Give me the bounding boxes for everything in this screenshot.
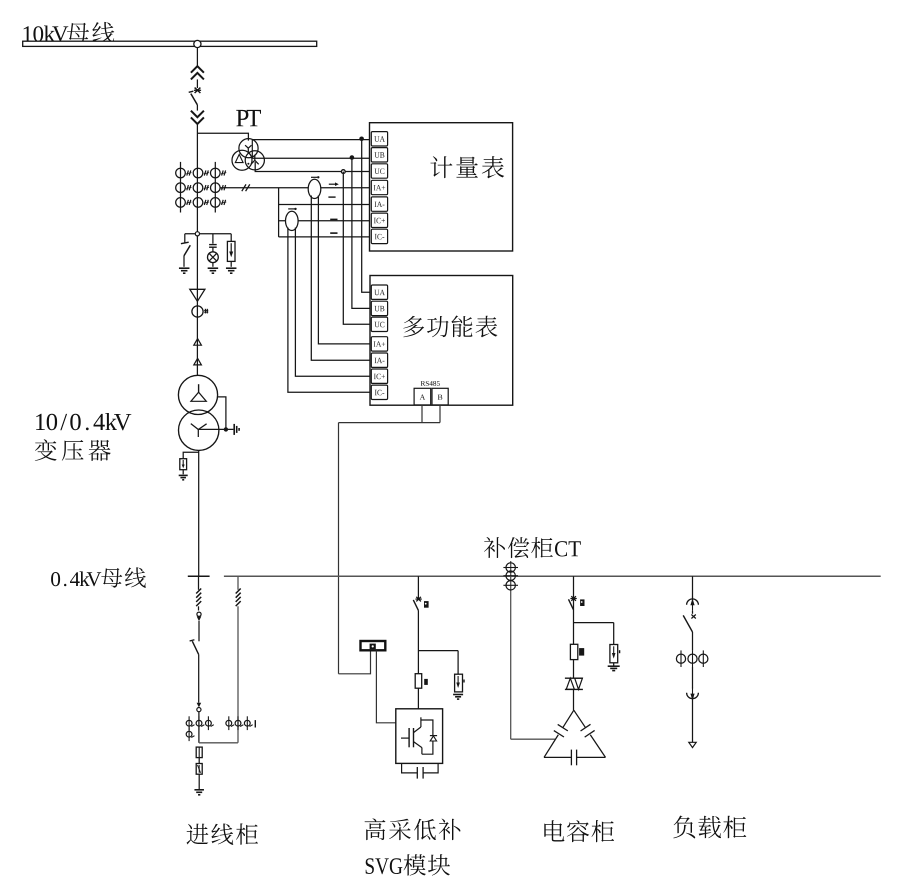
PT winding A xyxy=(239,139,258,158)
wire IA+ to meter1 xyxy=(220,187,371,189)
0.4kV busbar xyxy=(224,575,881,577)
marker dash IC- xyxy=(330,232,337,234)
0.4kV bus crossbar xyxy=(188,575,210,577)
wire UC drop to meter2 xyxy=(343,172,371,325)
wire xyxy=(198,621,200,641)
10kV busbar xyxy=(23,41,317,46)
ground arrester capacitor xyxy=(613,663,615,666)
wire xyxy=(692,699,694,743)
breaker capacitor branch xyxy=(571,596,576,601)
wire xyxy=(692,667,694,689)
arrester capacitor branch xyxy=(613,623,615,645)
label SVG cabinet line1 xyxy=(365,818,461,840)
fuse capacitor xyxy=(570,644,577,659)
PT delta mark xyxy=(235,154,243,162)
wire bus to isolator xyxy=(196,48,198,67)
wire RS485 B xyxy=(439,405,441,423)
ground arrester SVG xyxy=(453,694,463,696)
wire xyxy=(198,758,200,764)
ground neutral rotated xyxy=(233,424,235,435)
wire UB drop to meter2 xyxy=(352,158,371,309)
wire neutral xyxy=(198,428,233,430)
wire CT IC lead b xyxy=(288,228,371,393)
PT winding B xyxy=(232,150,252,170)
comm module box xyxy=(361,641,386,650)
node neutral xyxy=(224,427,228,431)
wire xyxy=(417,610,419,673)
wire xyxy=(182,470,184,475)
fuse SVG xyxy=(415,674,422,689)
wire xyxy=(198,712,200,743)
wire IA- to meter1 xyxy=(279,204,372,206)
wire RS485 horizontal xyxy=(339,422,441,424)
transformer wye mark xyxy=(191,424,199,430)
PT inner lead xyxy=(251,140,253,159)
ground earth switch xyxy=(179,267,190,269)
fuse feeder1 xyxy=(196,747,202,758)
wire UB xyxy=(252,157,371,159)
load CT circles xyxy=(680,650,682,667)
label 0.4kV busbar xyxy=(51,571,101,586)
arrester SVG branch xyxy=(457,651,459,675)
wire riser to capacitor delta xyxy=(511,738,556,740)
breaker X mark xyxy=(195,88,201,93)
branch to arrester cap xyxy=(574,622,614,624)
flow triangle xyxy=(190,289,205,301)
label transformer ratio xyxy=(36,413,131,430)
meter device circle xyxy=(192,306,203,317)
breaker SVG branch xyxy=(416,597,421,602)
ground arrester xyxy=(226,267,237,269)
contact symbol xyxy=(197,612,201,616)
wire xyxy=(573,689,575,710)
label multifunction meter xyxy=(403,316,497,338)
load feeder drawout contact bottom xyxy=(687,693,699,699)
RS485 terminals A B xyxy=(414,388,431,405)
wire xyxy=(573,660,575,679)
label transformer name xyxy=(35,439,111,461)
node UB junction xyxy=(350,155,355,160)
wire IC+ to meter1 xyxy=(279,220,372,222)
load arrow xyxy=(689,742,696,747)
label incoming cabinet xyxy=(187,823,259,844)
PT winding C xyxy=(245,151,264,170)
label 10kV busbar xyxy=(24,26,69,42)
label metering meter xyxy=(430,156,504,178)
marker dash IC+ xyxy=(330,218,337,220)
wire UA xyxy=(252,139,371,141)
CT grid 3x3 current transformers xyxy=(180,162,182,213)
wire HV tap xyxy=(217,397,226,430)
earth switch xyxy=(184,234,186,243)
wire CT IA lead b xyxy=(311,196,371,361)
arrester branch xyxy=(230,234,232,242)
relay triangle 2 xyxy=(194,358,202,365)
wire xyxy=(417,688,419,709)
wire to comm module xyxy=(339,651,371,674)
label compensation CT xyxy=(484,537,581,558)
transformer LV winding xyxy=(179,410,219,450)
relay triangle 1 xyxy=(194,339,202,346)
thyristor pair xyxy=(565,677,583,679)
capacitor delta bank xyxy=(563,710,574,727)
transformer HV winding xyxy=(178,375,217,414)
marker dash IA- xyxy=(328,196,335,198)
surge arrester xyxy=(227,241,235,261)
PT dot xyxy=(247,163,249,165)
meter1 terminal strip UA UB UC IA+ IA- IC+ IC- xyxy=(371,132,387,146)
wire xyxy=(196,232,198,375)
ground lamp xyxy=(208,267,219,269)
wire UC xyxy=(255,162,371,172)
disconnect blade xyxy=(189,91,194,92)
wire CT IC lead a xyxy=(295,228,371,377)
lamp xyxy=(208,252,219,263)
feeder1 CT cluster xyxy=(188,716,190,730)
isolator upper chevrons xyxy=(191,66,204,73)
contact symbol lower xyxy=(197,703,202,708)
wire RS485 A xyxy=(421,405,423,423)
ground feeder1 xyxy=(194,789,204,791)
wire comm to SVG box xyxy=(376,651,395,723)
meter2 terminal strip UA UB UC IA+ IA- IC+ IC- xyxy=(371,285,387,299)
incoming feeder 1 drawout top xyxy=(198,576,200,590)
label RS485 xyxy=(421,381,440,386)
node junction xyxy=(195,232,199,236)
wire CT common vertical xyxy=(278,188,280,237)
neutral arrester branch xyxy=(183,452,199,458)
meter box multifunction xyxy=(370,276,513,406)
wire xyxy=(198,655,200,703)
wire xyxy=(196,79,198,88)
marker double slash xyxy=(242,184,246,191)
wire transformer down xyxy=(198,450,200,576)
ground neutral arrester xyxy=(179,474,188,476)
PT wye mark xyxy=(245,145,248,148)
wire main through CT grid xyxy=(196,168,198,232)
node bus tap xyxy=(194,40,201,47)
wire UA drop to meter2 xyxy=(362,139,372,292)
SVG module box xyxy=(396,709,443,764)
transformer delta mark xyxy=(191,392,206,401)
feeder2 CT cluster xyxy=(228,716,230,730)
label load cabinet xyxy=(673,816,746,839)
PT star mark xyxy=(251,160,255,164)
CT coil IA xyxy=(308,179,321,198)
wire SVG branch xyxy=(417,576,419,600)
wire RS485 long drop xyxy=(338,423,340,674)
marker arrow IA+ xyxy=(329,183,336,185)
wire IC- to meter1 xyxy=(279,236,372,238)
neutral arrester xyxy=(180,459,187,470)
wire xyxy=(198,774,200,789)
DC link capacitor xyxy=(402,763,417,773)
breaker load xyxy=(691,615,695,619)
breaker blade feeder1 xyxy=(190,640,195,641)
label SVG cabinet line2 xyxy=(366,854,450,875)
node UC junction xyxy=(341,170,345,174)
node UA junction xyxy=(359,137,364,142)
wire lamp to ground xyxy=(212,263,214,267)
label capacitor cabinet xyxy=(544,820,614,842)
IGBT with diode xyxy=(401,737,409,739)
earthing branch bus xyxy=(185,233,231,235)
load feeder drawout contact top xyxy=(692,576,694,598)
wire xyxy=(196,105,198,111)
branch to arrester svg xyxy=(418,650,458,652)
label PT xyxy=(236,110,261,126)
lamp branch xyxy=(212,234,214,244)
wire xyxy=(692,632,694,650)
wire arrester to ground xyxy=(230,261,232,266)
CT coil IC xyxy=(286,211,299,230)
isolator lower chevrons xyxy=(191,111,204,118)
wire CT IA lead a xyxy=(318,196,371,344)
tie wire feeders xyxy=(199,742,238,744)
wire main to CT grid xyxy=(196,124,198,168)
wire branch to PT xyxy=(197,133,248,140)
wire capacitor branch xyxy=(573,576,575,644)
meter box metering xyxy=(370,123,513,251)
compensation CT circles xyxy=(510,561,512,739)
incoming feeder 2 xyxy=(237,576,239,590)
arrester feeder1 xyxy=(196,764,202,775)
